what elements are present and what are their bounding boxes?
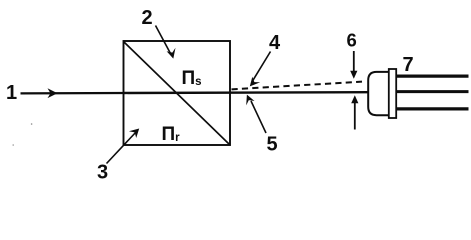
beam splitter diagonal xyxy=(124,42,230,145)
lead pin middle xyxy=(396,90,468,93)
svg-text:Пs: Пs xyxy=(182,68,202,89)
arrowhead on input beam xyxy=(48,88,58,98)
dimension up-arrowhead xyxy=(351,95,358,103)
leader line from label 3 xyxy=(107,132,137,164)
beam splitter cube body xyxy=(124,41,231,145)
arrowhead of leader 2 xyxy=(167,48,176,59)
svg-text:6: 6 xyxy=(347,30,357,51)
wire: input beam line xyxy=(21,92,124,95)
leader line from label 2 xyxy=(156,26,171,54)
wire: beam through cube and to detector xyxy=(124,91,369,94)
arrowhead of leader 3 xyxy=(129,129,139,139)
lead pin top xyxy=(396,74,468,77)
svg-text:4: 4 xyxy=(269,32,281,54)
arrowhead of leader 5 xyxy=(246,95,254,106)
dimension down-arrow line xyxy=(353,51,355,73)
scan speck xyxy=(12,144,14,146)
svg-text:Пr: Пr xyxy=(162,124,181,145)
scan speck xyxy=(31,123,33,125)
dimension down-arrowhead xyxy=(350,71,357,79)
photodetector can body (dome) xyxy=(368,72,389,115)
photodetector flange xyxy=(389,69,396,118)
arrowhead of leader 4 xyxy=(250,77,260,87)
lead pin bottom xyxy=(396,107,468,110)
svg-text:2: 2 xyxy=(142,7,153,29)
svg-text:3: 3 xyxy=(97,162,108,184)
leader line from label 4 xyxy=(253,52,271,82)
svg-text:7: 7 xyxy=(403,54,414,76)
svg-text:5: 5 xyxy=(267,134,278,156)
wire: dashed reflected beam xyxy=(232,82,363,90)
svg-text:1: 1 xyxy=(6,82,17,104)
leader line from label 5 xyxy=(251,101,266,133)
dimension up-arrow line xyxy=(354,101,356,130)
